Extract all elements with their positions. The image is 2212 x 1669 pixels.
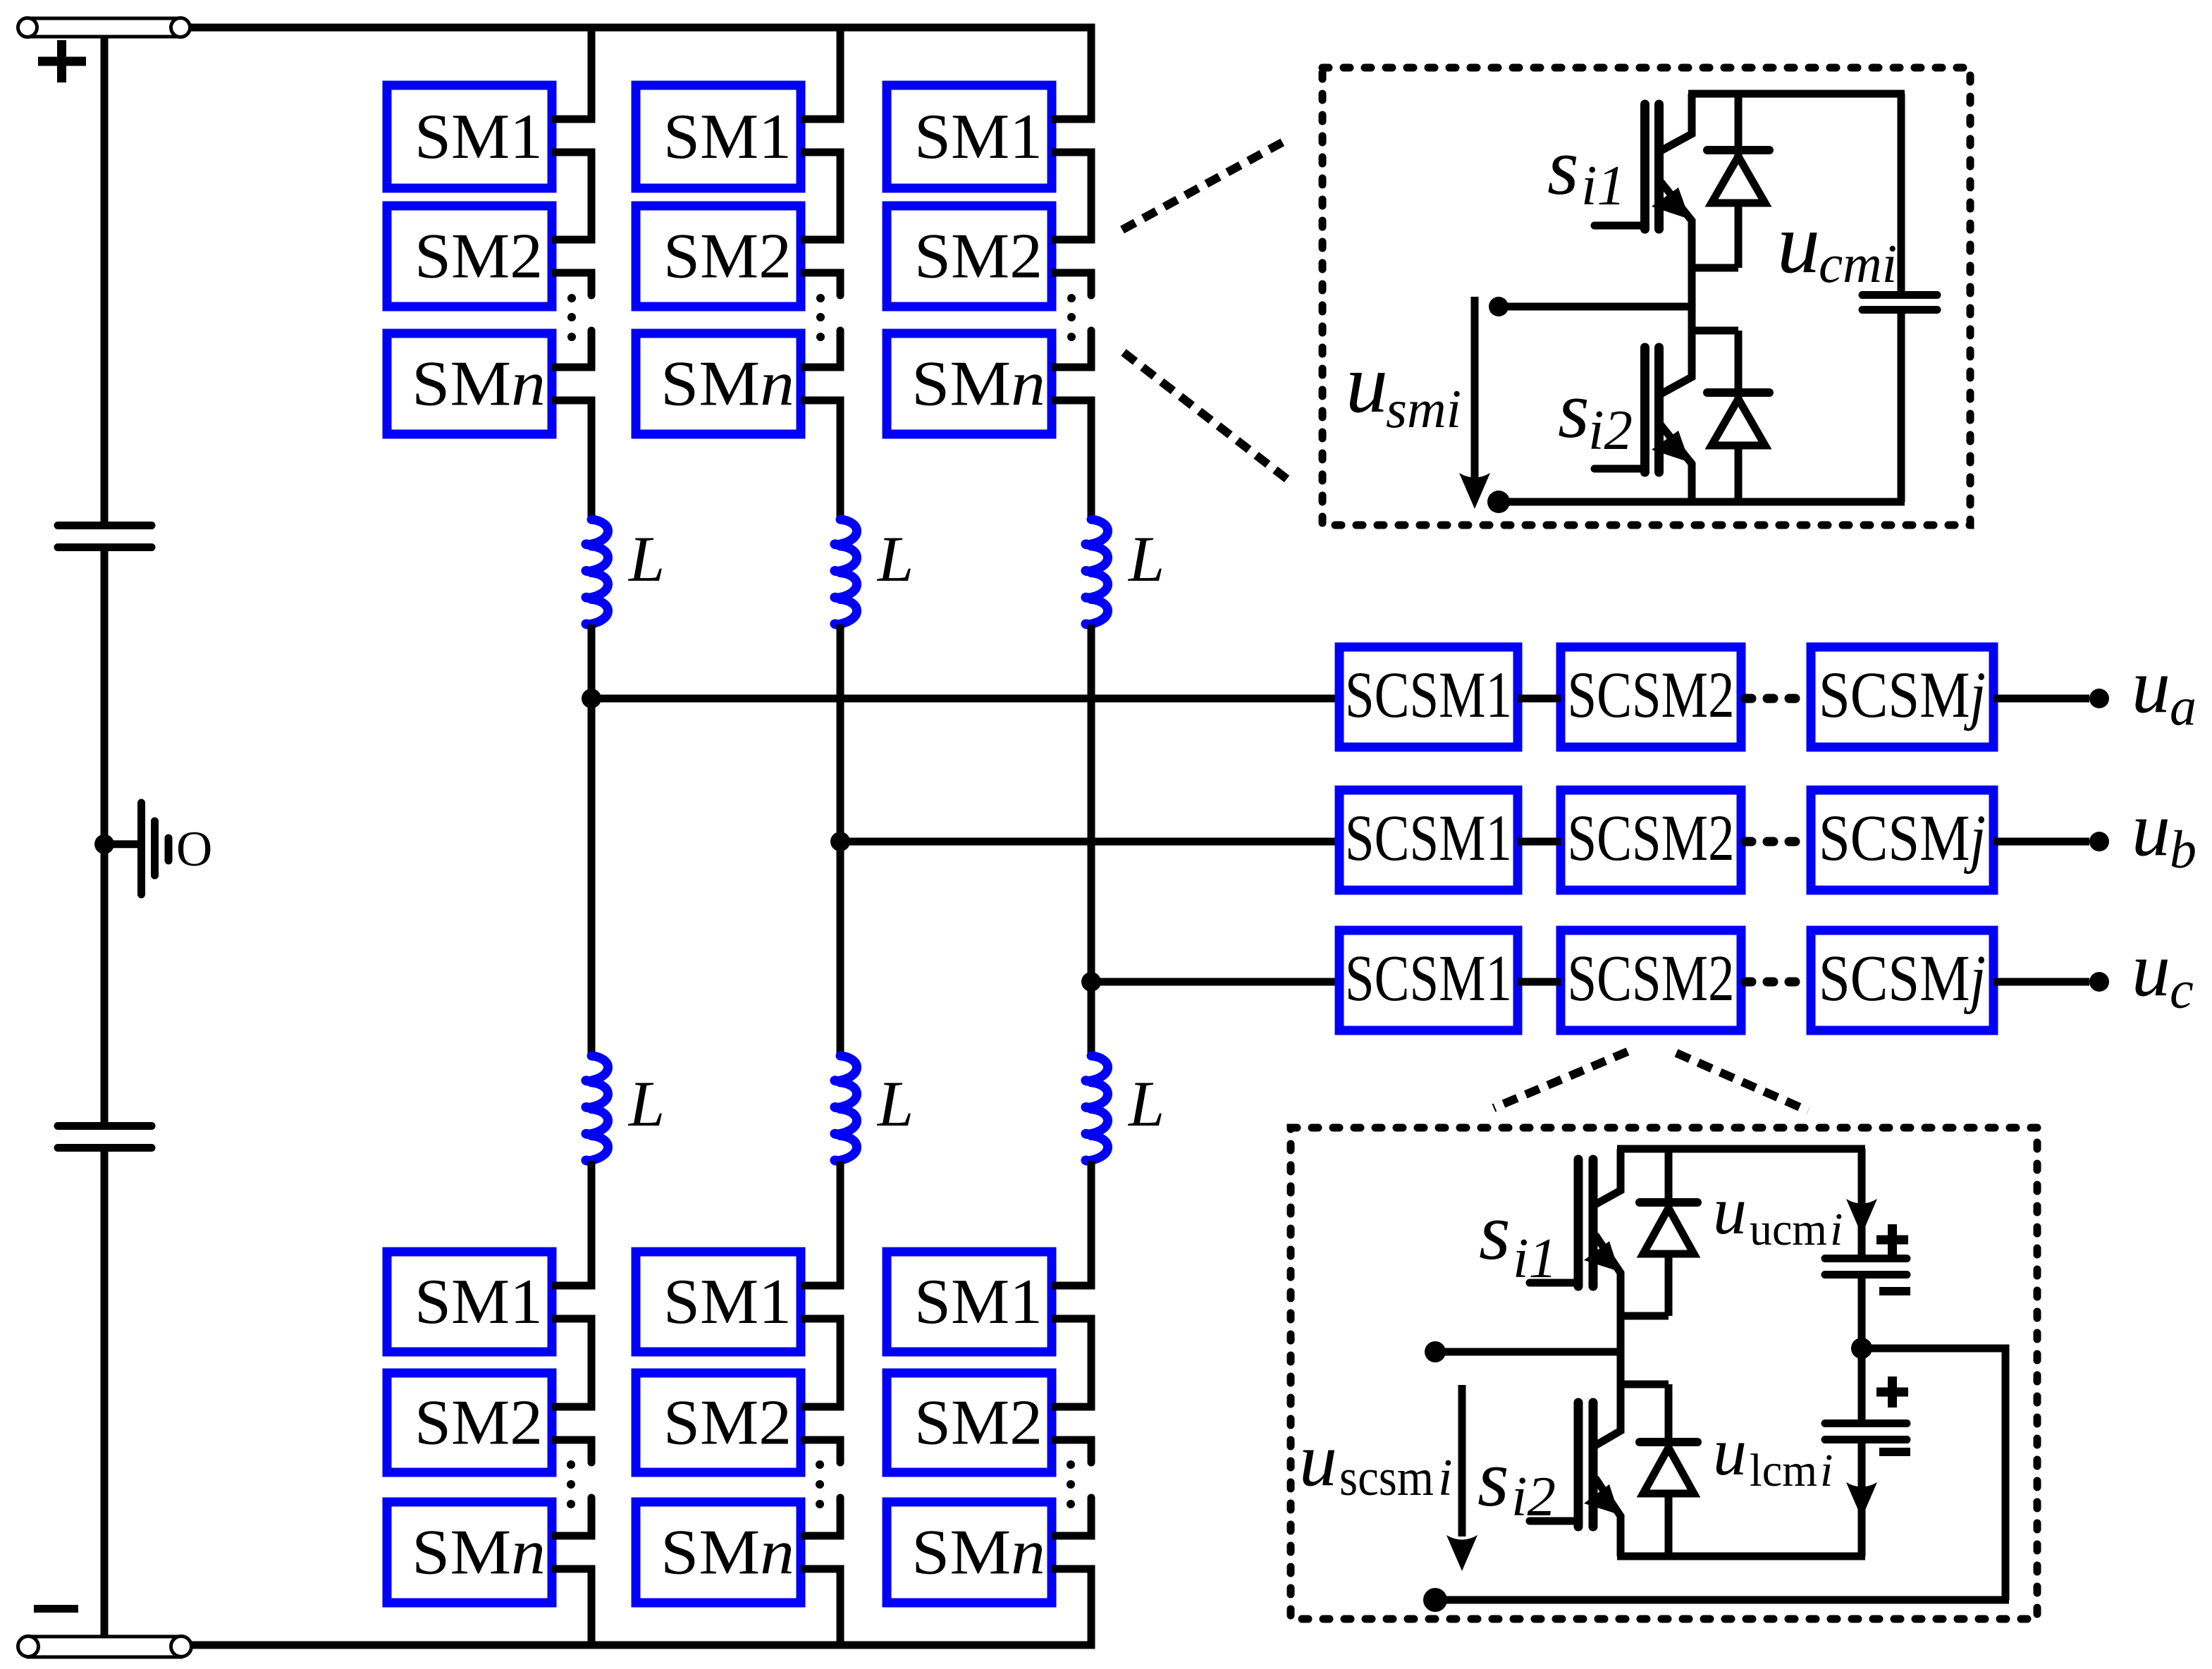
wire stub SM2 upper: [801, 236, 844, 244]
wire stub SMn upper: [552, 1532, 596, 1540]
svg-text:SCSMj: SCSMj: [1819, 802, 1986, 875]
svg-text:u: u: [1346, 336, 1388, 430]
wire: phase c line to SCSM1: [1091, 978, 1339, 986]
wire stub SM1 upper: [552, 116, 596, 123]
DC positive terminal pill: [18, 18, 190, 37]
ellipsis dots (more SMs, upper arm): [816, 294, 825, 341]
dashed wire: SCSM2..SCSMj (phase c): [1745, 978, 1811, 987]
DC negative terminal pill: [18, 1637, 192, 1658]
svg-text:s: s: [1547, 122, 1579, 211]
wire stub SM2 upper: [801, 1403, 844, 1411]
wire stub SM2 lower: [1052, 1436, 1095, 1444]
wire: SCSMj to output c: [1993, 978, 2089, 986]
node: SM lower terminal: [1487, 491, 1510, 513]
wire: inductor to phase node: [837, 624, 844, 845]
wire stub SMn upper: [1052, 1532, 1095, 1540]
wire hook above SMn: [837, 331, 841, 367]
plus mark (lower cap): [1876, 1377, 1908, 1408]
svg-text:u: u: [1713, 1414, 1747, 1489]
submodule SM2 box (lower arm, leg x=839): [387, 1373, 552, 1472]
svg-text:ucm: ucm: [1750, 1204, 1827, 1255]
wire stub SM2 upper: [1052, 1403, 1095, 1411]
wire: Cd1 to Cd2 through midpoint: [101, 551, 109, 1122]
wire: phase b line to SCSM1: [840, 838, 1339, 846]
diode D1 (SCSM detail): [1621, 1149, 1697, 1316]
svg-text:SM2: SM2: [414, 1387, 543, 1458]
svg-text:SM1: SM1: [914, 101, 1043, 172]
SCSMj box (phase c): [1811, 930, 1993, 1030]
arrow + label u_scsmi: [1299, 1385, 1477, 1571]
svg-text:u: u: [2132, 926, 2170, 1012]
wire hook above SMn: [1088, 331, 1092, 367]
wire: SMn to bottom bus: [1088, 1569, 1095, 1645]
SCSM2 box (phase c): [1561, 930, 1741, 1030]
inductor L (lower arm, leg x=839): [586, 1056, 608, 1162]
wire stub SM2 lower: [1052, 269, 1095, 277]
wire: top bus to SM1 (leg x=1192): [837, 24, 844, 120]
svg-text:L: L: [627, 523, 665, 595]
submodule SM2 box (lower arm, leg x=1192): [636, 1373, 801, 1472]
submodule SM2 box (lower arm, leg x=1548): [887, 1373, 1052, 1472]
wire stub SMn upper: [1052, 364, 1095, 371]
SCSMj box (phase a): [1811, 647, 1993, 747]
wire hook above SMn (lower): [1088, 1498, 1092, 1536]
wire stub SM1 upper: [552, 1282, 596, 1290]
svg-text:i2: i2: [1511, 1465, 1556, 1528]
svg-text:i: i: [1438, 1449, 1453, 1507]
dashed leader: SM to detail box (upper): [1122, 138, 1290, 230]
ellipsis dots (more SMs, upper arm): [567, 294, 576, 341]
wire: top DC bus: [190, 24, 1095, 32]
wire: phase a line to SCSM1: [591, 695, 1339, 703]
wire: top bus to SM1 (leg x=1548): [1088, 24, 1095, 120]
wire: bottom DC bus: [191, 1642, 1095, 1649]
inductor L (upper arm, leg x=1192): [835, 519, 857, 626]
wire: SM bottom rail: [1499, 498, 1905, 506]
dashed wire: SCSM2..SCSMj (phase b): [1745, 837, 1811, 846]
wire: SM1 to SM2: [588, 152, 596, 240]
svg-text:SMn: SMn: [412, 1517, 546, 1588]
svg-text:SM1: SM1: [914, 1266, 1043, 1337]
wire stub SM1 upper: [801, 116, 844, 123]
svg-text:O: O: [176, 822, 212, 877]
minus mark (lower cap): [1879, 1448, 1910, 1456]
wire: SCSMj to output a: [1993, 695, 2089, 703]
svg-text:a: a: [2170, 677, 2196, 737]
svg-text:SCSM2: SCSM2: [1568, 802, 1735, 875]
submodule SM2 box (upper arm, leg x=839): [387, 206, 552, 307]
capacitor C (SM detail): [1862, 94, 1937, 502]
inductor L (lower arm, leg x=1192): [835, 1056, 857, 1162]
submodule SM1 box (upper arm, leg x=839): [387, 85, 552, 188]
svg-text:u: u: [1299, 1418, 1337, 1502]
label ua: [2132, 643, 2196, 737]
svg-text:SM2: SM2: [663, 221, 792, 292]
wire hook below SM2 (lower): [588, 1440, 592, 1462]
SCSMj box (phase b): [1811, 790, 1993, 890]
svg-text:SMn: SMn: [412, 348, 546, 419]
wire stub SMn upper: [552, 364, 596, 371]
svg-text:i2: i2: [1588, 398, 1633, 462]
wire hook below SM2: [837, 273, 841, 295]
arrow + label u_smi: [1346, 297, 1490, 509]
capacitor Cd2: [58, 1126, 152, 1148]
wire: SCSM mid node: [1435, 1348, 1621, 1356]
svg-text:L: L: [1127, 1068, 1165, 1140]
minus mark (upper cap): [1879, 1287, 1910, 1295]
wire: SM1 to SM2 (lower): [588, 1319, 596, 1407]
inductor L (upper arm, leg x=1548): [1086, 519, 1108, 626]
wire: SCSM1-SCSM2 (phase b): [1518, 838, 1561, 846]
node: phase-a junction: [582, 689, 601, 708]
wire hook below SM2: [588, 273, 592, 295]
label s_i2 (SCSM): [1477, 1434, 1556, 1528]
submodule SMn box (upper arm, leg x=1548): [887, 333, 1052, 434]
label ub: [2132, 786, 2196, 880]
wire: SM1 to SM2 (lower): [1088, 1319, 1095, 1407]
svg-text:SMn: SMn: [911, 348, 1045, 419]
wire: capacitor midpoint to lower terminal rail: [1862, 1348, 2005, 1600]
wire stub SMn lower: [801, 1565, 844, 1573]
node: SCSM upper terminal: [1425, 1341, 1446, 1362]
wire hook above SMn (lower): [837, 1498, 841, 1536]
submodule SMn box (lower arm, leg x=1192): [636, 1502, 801, 1603]
wire stub SM1 upper: [1052, 1282, 1095, 1290]
wire stub SM2 lower: [801, 1436, 844, 1444]
wire: SM1 to SM2 (lower): [837, 1319, 844, 1407]
dashed border: SCSM detail box: [1291, 1128, 2037, 1619]
svg-text:SM2: SM2: [414, 221, 543, 292]
IGBT Si1 (SM detail): [1595, 94, 1692, 307]
wire: phase node down to lower inductor: [837, 842, 844, 1057]
wire stub SM2 upper: [552, 236, 596, 244]
wire stub SMn lower: [552, 1565, 596, 1573]
svg-text:SCSMj: SCSMj: [1819, 942, 1986, 1015]
svg-text:L: L: [876, 1068, 914, 1140]
SCSM1 box (phase b): [1339, 790, 1518, 890]
svg-text:cmi: cmi: [1819, 233, 1897, 294]
wire stub SM2 upper: [552, 1403, 596, 1411]
wire stub SM2 upper: [1052, 236, 1095, 244]
wire stub SMn upper: [801, 1532, 844, 1540]
svg-text:L: L: [876, 523, 914, 595]
submodule SMn box (lower arm, leg x=1548): [887, 1502, 1052, 1603]
current arrow into upper capacitor: [1846, 1199, 1877, 1235]
node: output terminal ub: [2089, 832, 2109, 851]
wire: phase node down to lower inductor: [588, 698, 596, 1057]
wire: SM1 to SM2: [837, 152, 844, 240]
wire stub SM1 lower: [1052, 149, 1095, 156]
wire: SM1 to SM2: [1088, 152, 1095, 240]
wire: SMn to arm inductor: [837, 400, 844, 521]
wire: SM top rail: [1688, 90, 1905, 98]
ellipsis dots (more SMs, lower arm): [1067, 1460, 1075, 1508]
svg-text:L: L: [1127, 523, 1165, 595]
submodule SM1 box (upper arm, leg x=1548): [887, 85, 1052, 188]
svg-text:u: u: [2132, 643, 2170, 729]
svg-text:c: c: [2170, 961, 2194, 1020]
svg-text:SM2: SM2: [914, 221, 1043, 292]
IGBT Si1 (SCSM detail): [1530, 1149, 1621, 1352]
ellipsis dots (more SMs, lower arm): [567, 1460, 575, 1508]
submodule SM1 box (lower arm, leg x=1548): [887, 1252, 1052, 1352]
wire stub SM1 lower: [552, 149, 596, 156]
wire hook below SM2 (lower): [1088, 1440, 1092, 1462]
IGBT Si2 (SCSM detail): [1530, 1352, 1621, 1556]
svg-text:b: b: [2170, 820, 2196, 880]
inductor L (upper arm, leg x=839): [586, 519, 608, 626]
label uc: [2132, 926, 2194, 1020]
svg-text:SMn: SMn: [911, 1517, 1045, 1588]
wire stub SMn lower: [1052, 397, 1095, 405]
node: phase-c junction: [1081, 972, 1101, 992]
wire: SCSM top rail: [1617, 1145, 1865, 1153]
node: SM upper terminal: [1489, 297, 1509, 316]
svg-text:u: u: [1777, 196, 1820, 291]
wire stub SMn lower: [552, 397, 596, 405]
wire: phase node down to lower inductor: [1088, 982, 1095, 1057]
submodule SM1 box (upper arm, leg x=1192): [636, 85, 801, 188]
wire hook below SM2 (lower): [837, 1440, 841, 1462]
diode D2 (SCSM detail): [1621, 1384, 1697, 1556]
wire: SMn to bottom bus: [588, 1569, 596, 1645]
wire hook below SM2: [1088, 273, 1092, 295]
svg-text:SM1: SM1: [414, 1266, 543, 1337]
wire: SMn to arm inductor: [588, 400, 596, 521]
svg-text:SCSM1: SCSM1: [1345, 942, 1512, 1015]
svg-text:s: s: [1558, 365, 1590, 455]
diode D1 (SM detail): [1692, 94, 1769, 268]
SCSM2 box (phase a): [1561, 647, 1741, 747]
SCSM1 box (phase a): [1339, 647, 1518, 747]
node: phase-b junction: [830, 832, 850, 851]
svg-text:SCSM1: SCSM1: [1345, 659, 1512, 732]
wire hook above SMn: [588, 331, 592, 367]
wire stub SM1 upper: [1052, 116, 1095, 123]
svg-text:SM1: SM1: [414, 101, 543, 172]
submodule SM2 box (upper arm, leg x=1192): [636, 206, 801, 307]
wire: SCSM1-SCSM2 (phase c): [1518, 978, 1561, 986]
svg-text:i1: i1: [1581, 154, 1626, 217]
svg-text:SMn: SMn: [660, 1517, 794, 1588]
svg-text:i1: i1: [1513, 1226, 1557, 1290]
wire stub SM2 lower: [552, 269, 596, 277]
ellipsis dots (more SMs, upper arm): [1067, 294, 1076, 341]
dashed wire: SCSM2..SCSMj (phase a): [1745, 694, 1811, 703]
ellipsis dots (more SMs, lower arm): [816, 1460, 824, 1508]
wire: lower inductor to SM1: [1088, 1161, 1095, 1286]
svg-text:SCSM2: SCSM2: [1568, 942, 1735, 1015]
svg-text:smi: smi: [1386, 378, 1461, 439]
wire: SM mid node (upper terminal to emitter): [1499, 303, 1692, 311]
label s_i2: [1558, 365, 1633, 462]
node: SCSM lower terminal: [1423, 1588, 1447, 1612]
capacitor C lower (SCSM detail): [1825, 1348, 1907, 1556]
label u_ucmi: [1713, 1173, 1843, 1255]
wire: lower inductor to SM1: [837, 1161, 844, 1286]
inductor L (lower arm, leg x=1548): [1086, 1056, 1108, 1162]
label s_i1 (SCSM): [1479, 1187, 1557, 1290]
dashed leader: SCSM2 to detail box (right): [1676, 1053, 1808, 1111]
plus mark (upper cap): [1876, 1224, 1908, 1255]
wire: SCSM lower terminal rail: [1435, 1596, 2009, 1604]
IGBT Si2 (SM detail): [1595, 307, 1692, 502]
minus sign (DC-): [34, 1605, 78, 1613]
label u_cmi: [1777, 196, 1897, 294]
wire: top bus to SM1 (leg x=839): [588, 24, 596, 120]
svg-text:SM2: SM2: [663, 1387, 792, 1458]
wire stub SM1 lower: [801, 149, 844, 156]
dashed leader: SCSM2 to detail box (left): [1494, 1052, 1628, 1108]
label u_lcmi: [1713, 1414, 1833, 1496]
submodule SM1 box (lower arm, leg x=839): [387, 1252, 552, 1352]
svg-text:SM2: SM2: [914, 1387, 1043, 1458]
submodule SMn box (lower arm, leg x=839): [387, 1502, 552, 1603]
capacitor Cd1: [58, 526, 152, 548]
wire: SMn to arm inductor: [1088, 400, 1095, 521]
svg-text:SMn: SMn: [660, 348, 794, 419]
node: SCSM capacitor midpoint: [1851, 1338, 1872, 1359]
svg-text:SCSM1: SCSM1: [1345, 802, 1512, 875]
wire: inductor to phase node: [588, 624, 596, 702]
wire stub SMn upper: [801, 364, 844, 371]
svg-text:u: u: [2132, 786, 2170, 872]
submodule SM1 box (lower arm, leg x=1192): [636, 1252, 801, 1352]
wire: lower inductor to SM1: [588, 1161, 596, 1286]
wire: Cd2 down to DC- terminal: [101, 1152, 109, 1637]
wire: SCSMj to output b: [1993, 838, 2089, 846]
dashed border: SM detail box: [1322, 68, 1970, 525]
wire stub SM1 upper: [801, 1282, 844, 1290]
svg-text:SCSMj: SCSMj: [1819, 659, 1986, 732]
wire stub SM2 lower: [552, 1436, 596, 1444]
svg-text:L: L: [627, 1068, 665, 1140]
wire stub SM1 lower: [801, 1315, 844, 1323]
wire: DC+ down to capacitor Cd1: [101, 37, 109, 522]
plus sign (DC+): [38, 40, 86, 82]
wire stub SMn lower: [1052, 1565, 1095, 1573]
wire: SCSM bridge bottom rail: [1617, 1553, 1865, 1560]
svg-text:scsm: scsm: [1339, 1449, 1434, 1507]
current arrow out of lower capacitor: [1846, 1482, 1877, 1518]
SCSM1 box (phase c): [1339, 930, 1518, 1030]
svg-text:u: u: [1713, 1173, 1747, 1248]
node: output terminal uc: [2089, 972, 2109, 992]
wire stub SM1 lower: [552, 1315, 596, 1323]
svg-text:s: s: [1477, 1434, 1509, 1523]
wire: inductor to phase node: [1088, 624, 1095, 985]
diode D2 (SM detail): [1692, 331, 1769, 502]
node: output terminal ua: [2089, 689, 2109, 708]
svg-text:SCSM2: SCSM2: [1568, 659, 1735, 732]
svg-text:lcm: lcm: [1750, 1445, 1817, 1496]
capacitor C upper (SCSM detail): [1825, 1149, 1907, 1348]
submodule SMn box (upper arm, leg x=1192): [636, 333, 801, 434]
wire stub SM1 lower: [1052, 1315, 1095, 1323]
submodule SMn box (upper arm, leg x=839): [387, 333, 552, 434]
submodule SM2 box (upper arm, leg x=1548): [887, 206, 1052, 307]
SCSM2 box (phase b): [1561, 790, 1741, 890]
label s_i1: [1547, 122, 1626, 217]
wire: SMn to bottom bus: [837, 1569, 844, 1645]
dashed leader: SM to detail box (lower): [1124, 352, 1290, 481]
wire hook above SMn (lower): [588, 1498, 592, 1536]
svg-text:s: s: [1479, 1187, 1511, 1276]
ground symbol at midpoint O: [94, 803, 168, 894]
svg-text:SM1: SM1: [663, 101, 792, 172]
svg-text:i: i: [1830, 1204, 1843, 1255]
svg-text:i: i: [1820, 1445, 1833, 1496]
wire: SCSM1-SCSM2 (phase a): [1518, 695, 1561, 703]
wire stub SMn lower: [801, 397, 844, 405]
wire stub SM2 lower: [801, 269, 844, 277]
svg-text:SM1: SM1: [663, 1266, 792, 1337]
